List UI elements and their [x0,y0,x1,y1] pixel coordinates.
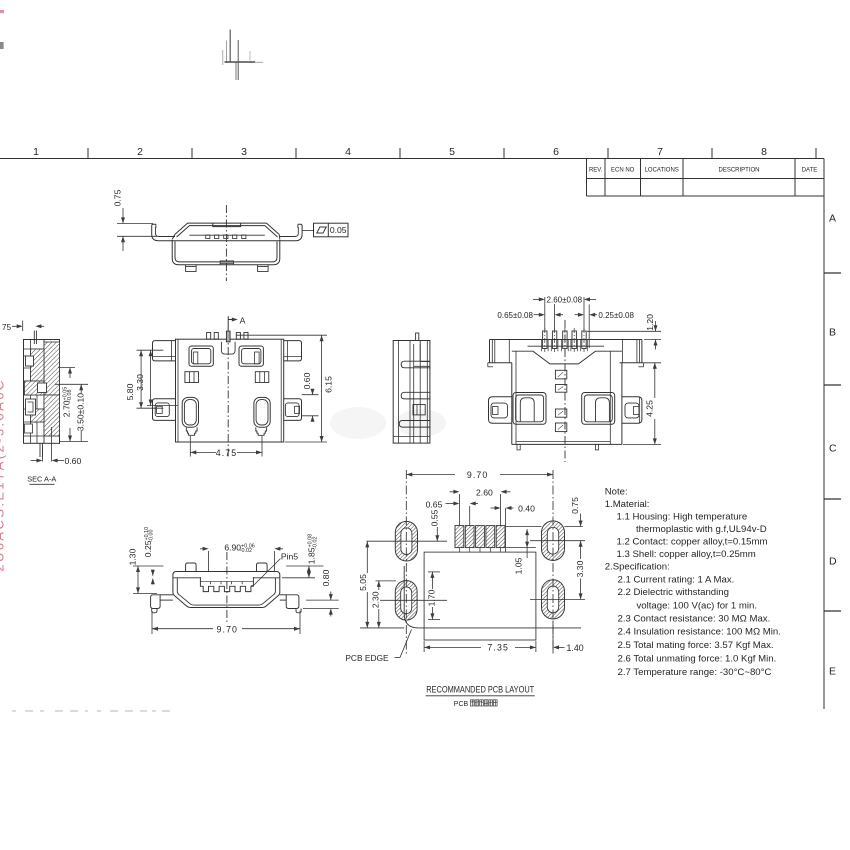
svg-text:3: 3 [241,146,247,158]
flatness flag 0.05 [302,223,348,237]
sec A-A dim 75 leader [2,321,44,333]
pin5 label and leader [251,552,298,586]
rear view bottom stubs [517,444,520,450]
front view shell outline [173,572,280,608]
bottom view centerline [227,333,229,460]
front view shell inner wall [177,578,275,605]
sec A-A bottom lead [39,443,41,457]
svg-text:2.6 Total unmating force:: 2.6 Total unmating force: 1.0 Kgf Min. [618,654,777,665]
svg-text:SEC A-A: SEC A-A [27,475,56,484]
side elevation bottom tab [220,261,234,265]
pcb pad oval bottom-left [395,581,417,621]
dim 3.30 bottom view [135,350,178,405]
bottom view latch window left [189,346,213,366]
bottom view bottom-left wing [153,399,176,421]
svg-text:B: B [829,327,836,339]
svg-text:2.60: 2.60 [476,487,493,497]
top scribble artifact [223,30,263,81]
sec A-A dim 0.60 [31,427,82,466]
svg-text:5.80: 5.80 [125,383,135,400]
svg-text:A: A [829,213,836,225]
svg-text:LOCATIONS: LOCATIONS [645,168,679,174]
dim 0.55 pcb [429,509,439,541]
svg-text:1.3 Shell: copper alloy,t=0: 1.3 Shell: copper alloy,t=0.25mm [617,549,756,560]
svg-text:4.25: 4.25 [644,400,654,417]
dim 0.60 bottom view [302,372,319,421]
front view right leg [280,595,301,613]
svg-text:2.2 Dielectric withstanding: 2.2 Dielectric withstanding [618,587,729,598]
center faint watermark [330,407,446,439]
svg-text:2.70+0.05-0.08: 2.70+0.05-0.08 [62,387,74,417]
side elevation view centerline [225,205,227,281]
svg-text:REV.: REV. [589,168,603,174]
svg-text:5.05: 5.05 [358,574,368,591]
svg-text:DATE: DATE [802,168,818,174]
svg-text:2.3 Contact resistance: 30: 2.3 Contact resistance: 30 MΩ Max. [618,614,771,625]
front view inner top line [173,577,201,579]
svg-text:PCB: PCB [454,701,469,708]
svg-text:DESCRIPTION: DESCRIPTION [718,168,759,174]
dim 9.70 pcb [406,470,553,480]
pcb edge label [345,630,411,664]
rear view side hook right [622,397,642,424]
bottom view section arrow A [228,316,245,333]
svg-text:0.65±0.08: 0.65±0.08 [497,311,533,320]
side elevation shell inner wall [177,226,278,237]
svg-text:1.20: 1.20 [645,314,655,331]
svg-text:3.30: 3.30 [135,374,145,391]
svg-text:1.70: 1.70 [427,589,437,606]
svg-text:6.15: 6.15 [324,376,334,393]
svg-text:2.60±0.08: 2.60±0.08 [547,296,583,305]
side elevation shell body outline [172,240,280,265]
svg-text:0.75: 0.75 [113,189,123,206]
left edge red watermark text [0,10,7,572]
front view tongue with contacts [200,577,253,592]
dim 0.75 side elevation [113,189,158,251]
svg-text:5: 5 [449,146,455,158]
svg-text:4: 4 [345,146,351,158]
dim 3.30 pcb [575,541,585,600]
dim 1.20 rear [587,314,661,350]
svg-text:4.75: 4.75 [216,448,238,458]
rear view latch window left [513,393,546,425]
rear view collar profile [512,351,622,364]
dim 1.05 pcb [513,529,529,574]
rear view extra ref line right of pin5 [588,305,590,349]
rear view centerline [564,320,566,462]
dim 1.40 pcb [553,621,584,653]
svg-text:3.50±0.10: 3.50±0.10 [76,393,86,431]
pcb extra ref line right of pad5 [505,508,507,552]
svg-text:0.65: 0.65 [426,499,443,509]
pcb footprint outline [424,552,536,640]
narrow side view top ear [419,340,421,361]
svg-text:RECOMMANDED PCB LAYOUT: RECOMMANDED PCB LAYOUT [426,684,534,695]
svg-text:0.25±0.08: 0.25±0.08 [598,311,634,320]
pcb oval centerlines horizontal [367,540,448,542]
bottom view bottom-right wing [284,399,302,421]
svg-text:1.1 Housing: High temperatu: 1.1 Housing: High temperature [617,512,748,523]
svg-text:A: A [240,316,246,326]
bottom view body outline [176,339,284,442]
pcb pads stubs [458,548,460,553]
narrow side view small latch [413,405,425,415]
svg-text:3.30: 3.30 [575,560,585,577]
svg-text:1.85+0.08-0.02: 1.85+0.08-0.02 [307,534,319,564]
rear view side hook left [489,397,512,424]
dim 0.65 pcb [426,499,478,525]
svg-text:7: 7 [657,146,663,158]
pcb pad oval top-right [542,521,565,561]
dim 6.90 front [200,543,283,573]
svg-text:1.2 Contact: copper alloy,t: 1.2 Contact: copper alloy,t=0.15mm [617,537,768,548]
dim 0.25 rear [575,311,635,320]
dim 0.25 front [143,527,155,585]
pcb pad oval bottom-right [542,580,565,619]
drawing frame top border line [0,158,824,160]
dim 1.70 pcb [427,572,441,620]
svg-text:Note:: Note: [605,487,628,498]
svg-text:6.90+0.06-0.02: 6.90+0.06-0.02 [224,543,254,555]
chinese caption pcb layout [454,700,497,708]
rear view center latches [555,370,566,379]
revision table [587,159,825,197]
svg-text:1.05: 1.05 [513,557,523,574]
row letter ticks [824,272,841,274]
bottom faint gray dashes [12,710,170,712]
bottom view latch window right [239,346,263,366]
front view centerline [226,552,228,624]
side elevation right solder foot [280,224,302,241]
rear view top band and ears [488,340,644,367]
dim 5.80 [125,350,163,408]
narrow side view bars [401,361,430,368]
svg-text:ECN NO: ECN NO [611,168,635,174]
front view left leg [151,595,173,613]
svg-text:0.55: 0.55 [429,509,439,526]
svg-text:2.5 Total mating force: 3.: 2.5 Total mating force: 3.57 Kgf Max. [618,640,774,651]
bottom view center pin and U hook [221,331,235,354]
pcb oval centerlines vertical [405,470,407,655]
side elevation left solder foot [152,224,173,241]
bottom view striped pad right [255,372,268,383]
bottom view striped pad left [185,372,199,383]
dim 2.60 pcb [450,487,511,525]
svg-text:2.Specification:: 2.Specification: [605,562,670,573]
rear view latch window right [582,393,615,425]
svg-text:2.30: 2.30 [371,591,381,608]
svg-text:1.Material:: 1.Material: [605,499,650,510]
svg-text:6: 6 [553,146,559,158]
bottom view top pins [207,333,211,340]
dim 1.85 front [282,534,323,578]
svg-text:0.25+0.10-0.00: 0.25+0.10-0.00 [143,527,155,557]
bottom view solder foot right [254,397,270,435]
dim 1.30 front [128,548,164,593]
dim 5.05 pcb [358,541,369,628]
svg-text:8: 8 [761,146,767,158]
narrow side view top pin [416,333,419,341]
svg-text:9.70: 9.70 [217,624,239,634]
svg-text:0.05: 0.05 [330,225,347,235]
bottom view solder foot left [182,397,198,435]
pcb pads bottom ext line [506,547,536,549]
sec A-A dim 3.50 [55,384,88,441]
sec A-A top pin lead [33,331,35,345]
svg-text:2.4 Insulation resistance:: 2.4 Insulation resistance: 100 MΩ Min. [618,627,781,638]
side elevation contact dimples [206,235,210,239]
recommended pcb layout label [426,684,535,696]
dim 9.70 front [152,611,300,635]
svg-text:75: 75 [2,323,12,332]
svg-text:voltage: 100 V(ac) for 1: voltage: 100 V(ac) for 1 min. [637,601,758,612]
dim 0.75 pcb [506,497,583,527]
side elevation top tab [213,223,241,227]
notes text block [605,487,781,679]
sec A-A dim 2.70 [58,368,75,442]
bottom view top-right wing [284,341,302,361]
rear view body [512,351,622,444]
svg-text:2U6ACS.E17A(2-3.0A6C: 2U6ACS.E17A(2-3.0A6C [0,378,7,571]
sec A-A section body [24,340,60,444]
dim 2.30 pcb [371,581,397,628]
svg-text:2.1 Current rating: 1 A M: 2.1 Current rating: 1 A Max. [618,575,735,586]
svg-text:0.80: 0.80 [321,569,331,586]
svg-text:E: E [829,666,836,678]
pcb edge line [360,566,581,628]
front view top bumps [186,563,197,572]
svg-text:7.35: 7.35 [487,643,509,653]
column number ticks [87,148,89,159]
side elevation mid seam lines [172,240,280,242]
pcb 5 solder pads [455,526,505,548]
svg-text:1: 1 [33,146,39,158]
bottom view top-left wing [153,341,176,361]
svg-text:0.40: 0.40 [518,504,535,514]
side elevation bottom feet [186,265,197,272]
dim 6.15 [236,335,334,442]
svg-text:PCB EDGE: PCB EDGE [345,653,389,663]
narrow side view body [393,341,430,444]
svg-text:0.60: 0.60 [302,372,312,389]
svg-text:2.7 Temperature range: -30°: 2.7 Temperature range: -30°C~80°C [618,667,772,678]
right border line [823,159,825,710]
svg-text:0.60: 0.60 [65,456,82,466]
dim 7.35 pcb [424,641,536,653]
svg-text:Pin5: Pin5 [281,552,298,562]
svg-text:2: 2 [137,146,143,158]
dim 0.80 front [303,569,339,616]
svg-text:D: D [829,556,837,568]
svg-text:thermoplastic with g.f,UL94v: thermoplastic with g.f,UL94v-D [636,524,767,535]
dim 4.75 [190,436,262,458]
svg-text:1.30: 1.30 [128,548,138,565]
rear view pins [542,328,588,352]
pcb pad oval top-left [395,521,417,561]
svg-text:9.70: 9.70 [467,470,489,480]
dim 2.60 rear [533,296,596,330]
dim 4.25 rear [623,363,661,445]
svg-text:C: C [829,443,837,455]
svg-text:0.75: 0.75 [570,497,580,514]
svg-text:1.40: 1.40 [567,643,584,653]
dim 0.65 rear [497,304,563,330]
dim 0.40 pcb [491,504,536,514]
